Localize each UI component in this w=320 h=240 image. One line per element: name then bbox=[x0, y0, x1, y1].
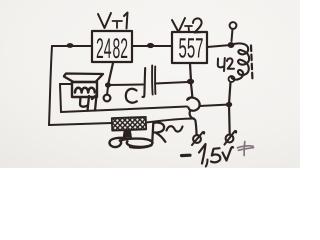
battery minus terminal bbox=[192, 132, 204, 145]
wire: mid horizontal from L1 lead to right junction bbox=[61, 105, 229, 113]
wire: VT2 collector to L2 top bbox=[207, 45, 231, 47]
battery label 1,5V bbox=[199, 144, 233, 167]
speaker cone trapezoid of L1 bbox=[64, 74, 103, 83]
wire: VT1 emitter down to L1 junction bbox=[108, 63, 113, 85]
wire: L1 right to capacitor bbox=[108, 84, 143, 87]
dashed core of L2 bbox=[251, 46, 253, 82]
wire: L2 bottom down to battery plus bbox=[229, 82, 231, 134]
antenna stub wire bbox=[232, 29, 233, 41]
paper background bbox=[0, 0, 300, 168]
wire: resistor to emitter junction bbox=[146, 119, 194, 123]
wire: L1 left lead bbox=[60, 83, 72, 85]
capacitor C left plate bbox=[143, 68, 146, 97]
wire: VT2 emitter down bbox=[190, 64, 191, 82]
scribble flourish under resistor bbox=[110, 131, 153, 148]
junction dot right side bbox=[226, 102, 232, 107]
L1 coil box bbox=[72, 82, 97, 97]
resistor R~ hatched body bbox=[112, 117, 146, 131]
wire: top-left horizontal to VT1 base bbox=[52, 45, 92, 47]
L1 coil arcs bbox=[75, 88, 95, 93]
L2 end curl bbox=[229, 76, 235, 82]
wire: VT1 collector to VT2 base bbox=[132, 45, 172, 47]
antenna open-circle terminal bbox=[230, 22, 237, 29]
wire: capacitor right to emitter junction bbox=[155, 82, 188, 84]
plus sign bbox=[238, 142, 254, 156]
label C bbox=[126, 89, 137, 103]
wire: emitter continues with hop over mid wire bbox=[187, 84, 199, 117]
wire: left vertical side bbox=[49, 46, 52, 125]
wire: emitter junction down to battery minus bbox=[191, 117, 197, 134]
svg-text:82: 82 bbox=[113, 33, 129, 65]
label L2 bbox=[218, 58, 234, 71]
inductor L2 loops bbox=[231, 43, 249, 79]
capacitor C right plate bbox=[152, 66, 155, 95]
node dot between VT1 and VT2 bbox=[147, 43, 154, 48]
svg-text:557: 557 bbox=[179, 33, 204, 64]
transistor VT1 box bbox=[92, 31, 132, 62]
transistor VT2 box bbox=[172, 32, 207, 63]
junction blob at L2 top bbox=[228, 42, 235, 48]
phone jack open circle bbox=[104, 95, 111, 102]
label R~ bbox=[152, 122, 182, 141]
svg-text:24: 24 bbox=[96, 33, 112, 65]
wire: bottom-left horizontal to resistor bbox=[49, 123, 112, 125]
junction dot at emitter/capacitor bbox=[187, 79, 194, 85]
junction dot at L1 right bbox=[105, 82, 111, 87]
label VT1 bbox=[98, 13, 128, 29]
phone jack stub bbox=[107, 87, 108, 95]
minus sign bbox=[182, 154, 191, 158]
label L1 bbox=[80, 95, 97, 111]
wire: L1 left lead down bbox=[60, 84, 61, 112]
battery plus terminal bbox=[225, 131, 237, 145]
label VT2 bbox=[172, 18, 204, 33]
node blob on top-left wire bbox=[67, 43, 74, 48]
